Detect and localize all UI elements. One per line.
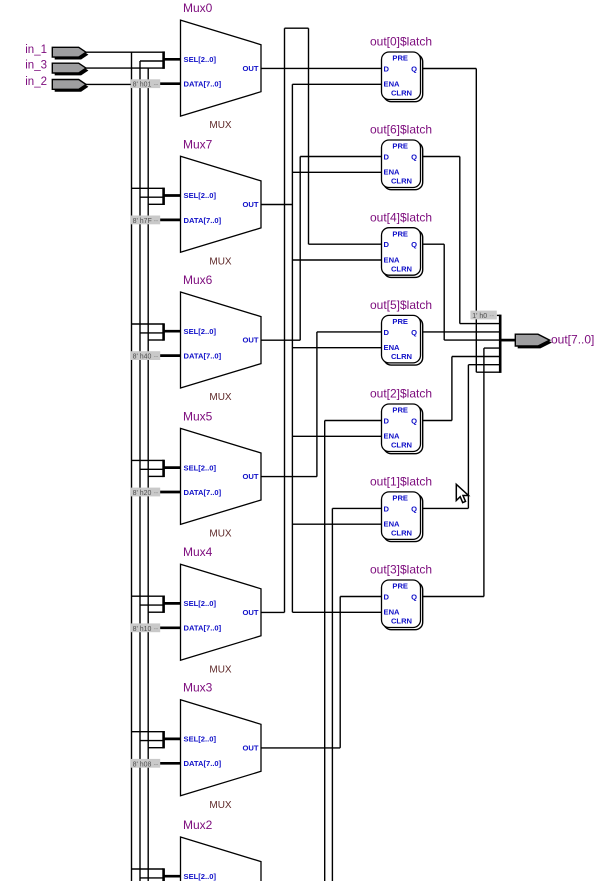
wire riser in_1 vertical — [131, 52, 133, 881]
wire out[7..0] bus stub — [500, 339, 515, 342]
wire tick1 Mux6 — [132, 323, 164, 325]
svg-text:SEL[2..0]: SEL[2..0] — [184, 55, 217, 64]
svg-text:D: D — [384, 65, 390, 74]
svg-text:8' h10: 8' h10 — [133, 626, 152, 633]
svg-text:ENA: ENA — [384, 608, 401, 617]
svg-text:ENA: ENA — [384, 255, 401, 264]
wire riser in_2 vertical — [139, 61, 141, 881]
svg-text:PRE: PRE — [392, 317, 408, 326]
input pin in_3 — [25, 60, 88, 76]
wire DATA bus stub Mux4 — [160, 626, 181, 629]
wire out[2] Q output route — [423, 357, 500, 421]
svg-text:SEL[2..0]: SEL[2..0] — [184, 327, 217, 336]
wire out[6] D input — [300, 156, 381, 158]
wire out[0] Q output route — [423, 69, 500, 373]
svg-text:in_2: in_2 — [25, 76, 47, 88]
svg-text:Mux2: Mux2 — [183, 818, 213, 832]
mux Mux5 — [181, 409, 262, 539]
constant value label 8' h40 -- for Mux6 DATA — [131, 351, 160, 360]
wire tick3 Mux3 — [148, 747, 163, 749]
latch out[0]$latch — [370, 35, 432, 102]
wire out[5]$latch ENA input — [292, 347, 381, 349]
svg-text:Mux4: Mux4 — [183, 545, 213, 559]
wire SEL bus stub Mux3 — [164, 738, 181, 741]
wire tick1 Mux7 — [132, 187, 164, 189]
svg-text:--: -- — [154, 761, 159, 768]
wire tick2 Mux2 — [140, 877, 164, 879]
wire Mux5 OUT — [261, 476, 317, 478]
junction bar Mux4 SEL — [162, 596, 165, 613]
svg-text:--: -- — [154, 626, 159, 633]
wire tick3 Mux5 — [148, 475, 163, 477]
svg-text:CLRN: CLRN — [391, 89, 412, 98]
wire tick2 Mux6 — [140, 332, 164, 334]
wire Mux0 OUT to out[0]$latch D — [261, 67, 382, 69]
svg-text:D: D — [384, 417, 390, 426]
svg-text:Q: Q — [411, 153, 417, 162]
svg-text:OUT: OUT — [242, 336, 258, 345]
wire out[1] D riser (from Mux1) — [331, 508, 333, 881]
svg-text:in_3: in_3 — [25, 60, 47, 72]
svg-text:PRE: PRE — [392, 229, 408, 238]
svg-text:SEL[2..0]: SEL[2..0] — [184, 872, 217, 881]
wire tick2 Mux0 — [140, 60, 164, 62]
svg-text:DATA[7..0]: DATA[7..0] — [184, 216, 222, 225]
svg-text:ENA: ENA — [384, 80, 401, 89]
svg-text:--: -- — [489, 313, 494, 320]
svg-text:MUX: MUX — [209, 120, 232, 131]
svg-text:DATA[7..0]: DATA[7..0] — [184, 624, 222, 633]
input pin in_1 — [25, 44, 88, 60]
wire out[5] D riser — [316, 332, 318, 477]
wire SEL bus stub Mux7 — [164, 194, 181, 197]
svg-text:SEL[2..0]: SEL[2..0] — [184, 191, 217, 200]
svg-text:ENA: ENA — [384, 432, 401, 441]
wire out[2]$latch ENA input — [292, 435, 381, 437]
wire tick1 Mux4 — [132, 595, 164, 597]
wire DATA bus stub Mux6 — [160, 354, 181, 357]
wire out[4] Q output route — [423, 244, 500, 340]
svg-text:PRE: PRE — [392, 54, 408, 63]
junction bar Mux7 SEL — [162, 188, 165, 205]
svg-text:in_1: in_1 — [25, 44, 47, 56]
svg-text:PRE: PRE — [392, 406, 408, 415]
svg-text:Q: Q — [411, 65, 417, 74]
svg-text:Mux5: Mux5 — [183, 409, 213, 423]
latch out[6]$latch — [370, 123, 432, 190]
wire top cap Mux4-to-out[4] — [285, 27, 309, 29]
junction bar out[7..0] — [499, 315, 502, 373]
wire Mux6 OUT — [261, 339, 300, 341]
wire riser in_3 vertical — [147, 68, 149, 881]
wire out[5] Q to output bar — [423, 331, 500, 333]
wire tick2 Mux3 — [140, 740, 164, 742]
svg-text:MUX: MUX — [209, 256, 232, 267]
svg-text:8' h01: 8' h01 — [133, 82, 152, 89]
svg-text:8' h7F: 8' h7F — [133, 218, 152, 225]
svg-text:CLRN: CLRN — [391, 529, 412, 538]
wire out[5] D input — [317, 331, 382, 333]
svg-text:8' h20: 8' h20 — [133, 490, 152, 497]
svg-text:Q: Q — [411, 328, 417, 337]
mux Mux6 — [181, 273, 262, 403]
wire in_3 to Mux0 SEL bar tick — [86, 67, 165, 69]
wire Mux7 OUT to ENA riser — [261, 204, 292, 206]
svg-text:SEL[2..0]: SEL[2..0] — [184, 463, 217, 472]
svg-text:Q: Q — [411, 417, 417, 426]
wire out[6] Q output route — [423, 157, 500, 324]
svg-text:Mux3: Mux3 — [183, 681, 213, 695]
latch out[2]$latch — [370, 387, 432, 454]
svg-text:DATA[7..0]: DATA[7..0] — [184, 352, 222, 361]
svg-text:OUT: OUT — [242, 64, 258, 73]
latch out[3]$latch — [370, 563, 432, 630]
wire tick3 Mux6 — [148, 339, 163, 341]
wire tick1 Mux3 — [132, 731, 164, 733]
wire tick1 Mux5 — [132, 459, 164, 461]
svg-text:out[5]$latch: out[5]$latch — [370, 298, 432, 312]
svg-text:--: -- — [154, 218, 159, 225]
svg-text:out[2]$latch: out[2]$latch — [370, 387, 432, 401]
wire tick3 Mux4 — [148, 611, 163, 613]
wire out[4] D input — [309, 243, 382, 245]
svg-text:out[1]$latch: out[1]$latch — [370, 475, 432, 489]
svg-text:D: D — [384, 593, 390, 602]
wire tick3 Mux7 — [148, 203, 163, 205]
junction bar Mux5 SEL — [162, 460, 165, 477]
svg-text:Q: Q — [411, 593, 417, 602]
wire tick2 Mux4 — [140, 604, 164, 606]
svg-text:Mux7: Mux7 — [183, 137, 213, 151]
wire out[3] D riser — [339, 597, 341, 748]
svg-text:1' h0: 1' h0 — [472, 313, 487, 320]
svg-text:8' h40: 8' h40 — [133, 354, 152, 361]
svg-text:ENA: ENA — [384, 343, 401, 352]
svg-text:CLRN: CLRN — [391, 264, 412, 273]
svg-text:OUT: OUT — [242, 200, 258, 209]
svg-text:OUT: OUT — [242, 743, 258, 752]
svg-text:out[6]$latch: out[6]$latch — [370, 123, 432, 137]
wire DATA bus stub Mux5 — [160, 491, 181, 494]
latch out[4]$latch — [370, 210, 432, 277]
latch out[5]$latch — [370, 298, 432, 365]
svg-text:ENA: ENA — [384, 168, 401, 177]
svg-text:CLRN: CLRN — [391, 441, 412, 450]
svg-text:DATA[7..0]: DATA[7..0] — [184, 80, 222, 89]
wire tick1 Mux2 — [132, 868, 164, 870]
wire out[1] D input — [332, 507, 381, 509]
output pin out[7..0] — [515, 332, 594, 348]
svg-text:Mux0: Mux0 — [183, 1, 213, 15]
svg-text:MUX: MUX — [209, 529, 232, 540]
svg-text:D: D — [384, 328, 390, 337]
svg-text:MUX: MUX — [209, 664, 232, 675]
svg-text:out[3]$latch: out[3]$latch — [370, 563, 432, 577]
wire tick2 Mux7 — [140, 196, 164, 198]
wire out[2] D input — [325, 420, 382, 422]
svg-text:Q: Q — [411, 240, 417, 249]
junction bar Mux6 SEL — [162, 323, 165, 340]
wire out[0]$latch ENA input — [292, 83, 381, 85]
svg-text:CLRN: CLRN — [391, 617, 412, 626]
junction bar Mux2 SEL — [162, 868, 165, 881]
wire in_1 to Mux0 SEL bar tick — [86, 51, 165, 53]
svg-text:DATA[7..0]: DATA[7..0] — [184, 759, 222, 768]
wire out[3] D input — [340, 596, 381, 598]
svg-text:SEL[2..0]: SEL[2..0] — [184, 599, 217, 608]
mux Mux2 — [181, 818, 262, 881]
junction bar Mux3 SEL — [162, 731, 165, 748]
svg-text:DATA[7..0]: DATA[7..0] — [184, 488, 222, 497]
constant value label 8' h10 -- for Mux4 DATA — [131, 623, 160, 632]
wire ENA riser (Mux7 OUT) — [291, 84, 293, 612]
wire out[6]$latch ENA input — [292, 171, 381, 173]
svg-text:--: -- — [154, 82, 159, 89]
wire down to out[4] D — [308, 28, 310, 244]
svg-text:PRE: PRE — [392, 582, 408, 591]
mouse cursor — [456, 484, 468, 502]
wire SEL bus stub Mux6 — [164, 330, 181, 333]
wire DATA bus stub Mux7 — [160, 219, 181, 222]
mux Mux0 — [181, 1, 262, 131]
svg-text:out[0]$latch: out[0]$latch — [370, 35, 432, 49]
wire SEL bus stub Mux2 — [164, 875, 181, 878]
wire out[1]$latch ENA input — [292, 523, 381, 525]
wire tick2 Mux5 — [140, 468, 164, 470]
svg-text:--: -- — [154, 354, 159, 361]
svg-text:Q: Q — [411, 504, 417, 513]
wire SEL bus stub Mux5 — [164, 466, 181, 469]
svg-text:PRE: PRE — [392, 142, 408, 151]
wire out[3] Q output route — [423, 348, 500, 596]
svg-text:ENA: ENA — [384, 520, 401, 529]
wire 1'h0 tick to output bar — [497, 314, 500, 316]
mux Mux3 — [181, 681, 262, 811]
mux Mux7 — [181, 137, 262, 267]
svg-text:out[7..0]: out[7..0] — [551, 332, 594, 346]
constant value label 8' h08 -- for Mux3 DATA — [131, 759, 160, 768]
svg-text:8' h08: 8' h08 — [133, 761, 152, 768]
wire out[6] D riser — [299, 157, 301, 341]
svg-text:D: D — [384, 504, 390, 513]
svg-text:PRE: PRE — [392, 494, 408, 503]
wire Mux3 OUT — [261, 747, 340, 749]
svg-text:OUT: OUT — [242, 608, 258, 617]
wire in_2 to riser — [86, 83, 140, 85]
svg-text:OUT: OUT — [242, 472, 258, 481]
wire Mux4 OUT — [261, 611, 285, 613]
svg-text:D: D — [384, 153, 390, 162]
latch out[1]$latch — [370, 475, 432, 542]
svg-text:CLRN: CLRN — [391, 352, 412, 361]
wire SEL bus stub Mux0 — [164, 58, 181, 61]
wire out[4]$latch ENA input — [292, 259, 381, 261]
svg-text:D: D — [384, 240, 390, 249]
wire out[2] D riser (from Mux2) — [324, 421, 326, 881]
junction bar Mux0 SEL — [162, 51, 165, 68]
wire out[1] Q output route — [423, 365, 500, 509]
constant value label 8' h20 -- for Mux5 DATA — [131, 488, 160, 497]
svg-text:MUX: MUX — [209, 800, 232, 811]
wire DATA bus stub Mux3 — [160, 762, 181, 765]
mux Mux4 — [181, 545, 262, 675]
wire Mux4 OUT riser up — [284, 28, 286, 612]
wire DATA bus stub Mux0 — [160, 82, 181, 85]
input pin in_2 — [25, 76, 88, 92]
svg-text:out[4]$latch: out[4]$latch — [370, 210, 432, 224]
wire out[3]$latch ENA input — [292, 611, 381, 613]
svg-text:--: -- — [154, 490, 159, 497]
svg-text:Mux6: Mux6 — [183, 273, 213, 287]
svg-text:MUX: MUX — [209, 392, 232, 403]
constant value label 8' h01 -- for Mux0 DATA — [131, 79, 160, 88]
constant value label 8' h7F -- for Mux7 DATA — [131, 216, 160, 225]
svg-text:SEL[2..0]: SEL[2..0] — [184, 735, 217, 744]
wire SEL bus stub Mux4 — [164, 602, 181, 605]
svg-text:CLRN: CLRN — [391, 177, 412, 186]
constant value label 1' h0 -- for out[7] — [470, 311, 496, 320]
